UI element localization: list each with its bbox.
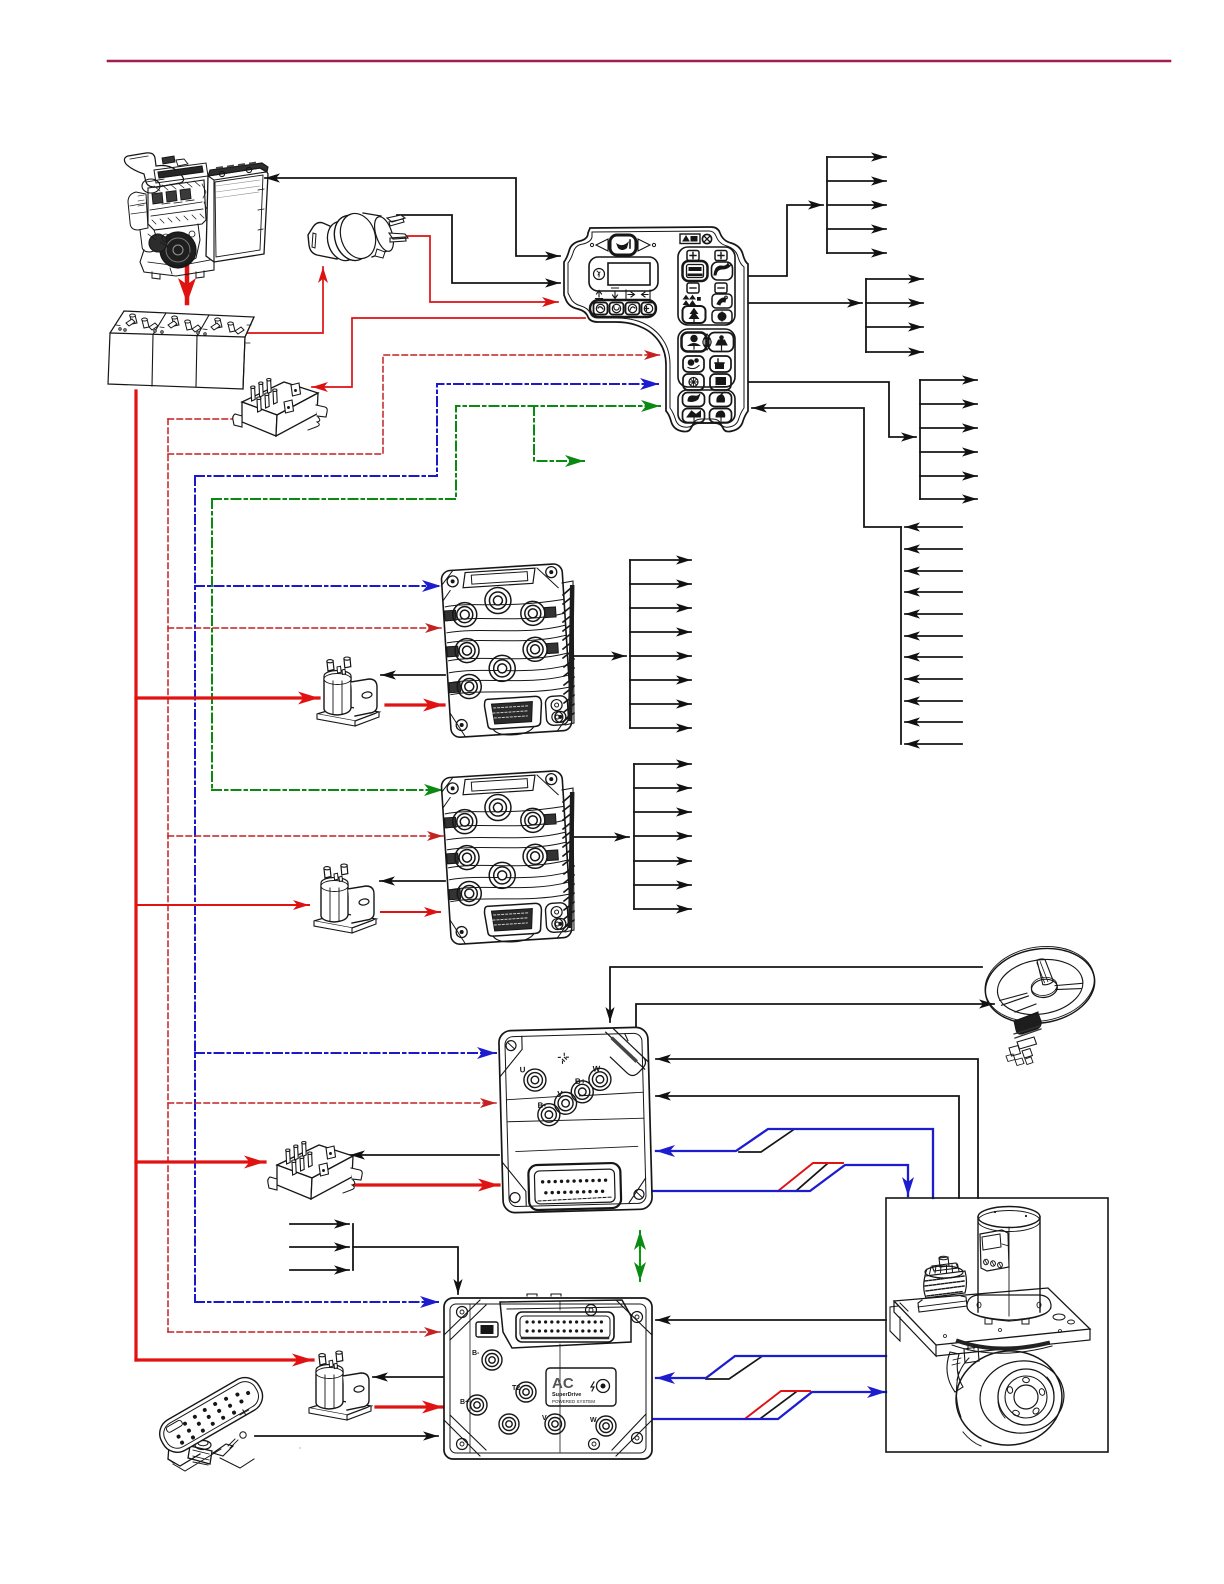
accelerator pedal base	[168, 1423, 300, 1471]
svg-text:B-: B-	[472, 1350, 480, 1357]
wire green dashdot to controller2	[212, 789, 443, 791]
wire red bus to contactor3	[136, 1358, 313, 1361]
wire controller2 to contactor2	[380, 880, 445, 882]
traction controller U3	[499, 1027, 653, 1213]
caster drive motor	[967, 1207, 1051, 1325]
wire blue dashdot to bottom controller	[195, 1301, 439, 1303]
page header rule	[108, 60, 1170, 63]
wire pedal to bottom controller	[255, 1435, 438, 1437]
wire blue bundle4 bottom controller to caster	[652, 1392, 886, 1419]
node fan2 bus	[865, 279, 867, 352]
svg-text:B+: B+	[575, 1077, 586, 1086]
wire panel to fan2	[748, 302, 862, 304]
wire red dashed to big controller	[168, 1102, 496, 1104]
wire contactor3 to bottom controller	[376, 1405, 443, 1408]
svg-text:B-: B-	[537, 1101, 546, 1110]
relay K1	[233, 379, 328, 437]
wire big controller to relay2	[350, 1154, 499, 1156]
steering wheel	[980, 939, 1101, 1031]
wire key switch to panel	[397, 215, 560, 283]
battery bank	[108, 311, 254, 389]
wire black companion of bundle1	[739, 1130, 793, 1152]
panel keypad group2	[678, 329, 735, 390]
wire relay2 to big controller	[352, 1183, 499, 1186]
wire caster box to bottom controller	[656, 1319, 886, 1321]
node fan3 bus	[919, 380, 921, 499]
wire contactor1 to controller1	[386, 703, 444, 706]
engine and radiator assembly	[124, 153, 268, 279]
caster wheel	[951, 1346, 1067, 1451]
svg-text:W: W	[593, 1064, 601, 1073]
wire blue bundle3 caster to bottom controller	[656, 1356, 886, 1378]
wire red companion of bundle2	[778, 1163, 843, 1191]
wire red dashed to bottom controller	[168, 1331, 440, 1333]
panel keypad group3	[678, 390, 735, 423]
wire panel to relay1	[312, 318, 585, 387]
caster fork	[947, 1344, 979, 1392]
wire red dashed to controller2	[168, 835, 443, 837]
wire fan1 stubs	[827, 156, 886, 158]
wire contactor2 to controller2	[381, 911, 440, 913]
panel warning labels	[680, 234, 712, 244]
wire red dashed trunk	[167, 419, 169, 1332]
panel arrow glyph row	[596, 288, 651, 299]
wire red dashed to relay1	[168, 418, 236, 420]
wire engine to battery	[185, 262, 190, 303]
svg-text:V: V	[557, 1089, 563, 1098]
control panel outline	[564, 227, 748, 432]
node controller1 fan bus	[629, 560, 631, 728]
panel button bar	[590, 300, 656, 317]
contactor K4	[314, 864, 376, 933]
node left-arrow bus	[900, 527, 902, 744]
caster mounting plate	[890, 1288, 1090, 1356]
wire panel to fan3	[749, 382, 916, 437]
node fan1 bus	[826, 157, 828, 253]
wire fan2 stubs	[866, 278, 923, 280]
wire black companion of bundle3	[706, 1357, 761, 1379]
wire blue dashdot to big controller	[195, 1052, 496, 1054]
drive controller U4	[444, 1294, 652, 1459]
panel horn button	[590, 235, 655, 255]
wire controller2 out	[573, 836, 629, 838]
wire black companion of bundle2	[796, 1164, 827, 1191]
wire red bus to relay2	[136, 1160, 265, 1163]
caster drive assembly box	[886, 1198, 1108, 1452]
contactor K3	[317, 657, 379, 726]
wire caster box to big controller B	[656, 1096, 959, 1198]
wire input stubs to bottom controller	[290, 1223, 349, 1225]
caster steering encoder	[918, 1256, 967, 1312]
wire panel to fan1	[748, 205, 823, 276]
wire big controller to steering column	[636, 1004, 994, 1026]
svg-text:W: W	[590, 1417, 597, 1424]
key switch S1	[308, 209, 408, 265]
wire steering wheel to big controller	[610, 967, 982, 1022]
wire red dashed to controller1	[168, 627, 441, 629]
svg-text:SuperDrive: SuperDrive	[552, 1392, 581, 1398]
wire fan3 stubs	[920, 379, 977, 381]
relay K2	[268, 1142, 363, 1200]
wire controller2 fan stubs	[634, 763, 691, 765]
svg-text:AC: AC	[552, 1375, 574, 1392]
wire green link between controllers	[639, 1231, 641, 1281]
wire black companion of bundle4	[761, 1392, 796, 1418]
wire controller1 to contactor1	[381, 674, 445, 676]
contactor K5	[309, 1351, 371, 1420]
svg-text:U: U	[520, 1065, 526, 1074]
panel keypad group1	[678, 247, 735, 325]
wire red dashed to panel	[168, 355, 660, 454]
node controller2 fan bus	[633, 764, 635, 909]
wire blue bundle2 big controller to caster	[652, 1165, 908, 1196]
wire red bus to contactor1	[136, 696, 319, 699]
wire red bus to contactor2	[136, 904, 309, 906]
accelerator pedal plate	[154, 1372, 268, 1458]
svg-text:B+: B+	[460, 1399, 469, 1406]
wire battery to key switch	[244, 267, 323, 333]
wire blue dashdot to panel	[195, 384, 659, 476]
wire red companion of bundle4	[746, 1391, 810, 1418]
wire blue bundle1 caster to big controller	[656, 1129, 933, 1198]
wire green dashdot to panel	[212, 406, 660, 499]
wire blue dashdot trunk	[194, 476, 196, 1302]
wire green dashdot branch below panel	[534, 406, 584, 461]
wire return bus to panel	[752, 408, 901, 527]
motor controller U2	[441, 770, 574, 945]
wire controller1 fan stubs	[630, 559, 691, 561]
wire red power bus	[134, 391, 137, 1360]
wire bottom controller to contactor3	[373, 1376, 444, 1378]
panel display module	[589, 257, 658, 291]
wire caster box to big controller A	[656, 1059, 978, 1198]
steering column	[1006, 1004, 1041, 1066]
motor controller U1	[441, 563, 574, 738]
wire blue dashdot to controller1	[195, 585, 441, 587]
wire key switch to panel	[394, 236, 558, 302]
svg-text:T2: T2	[512, 1385, 520, 1392]
wire controller1 out	[573, 655, 626, 657]
svg-text:V: V	[542, 1415, 547, 1422]
wire engine to panel	[265, 178, 560, 256]
svg-text:POWERED SYSTEM: POWERED SYSTEM	[552, 1399, 595, 1404]
wire green dashdot trunk	[211, 499, 213, 790]
wire left-arrow stubs	[905, 526, 962, 528]
